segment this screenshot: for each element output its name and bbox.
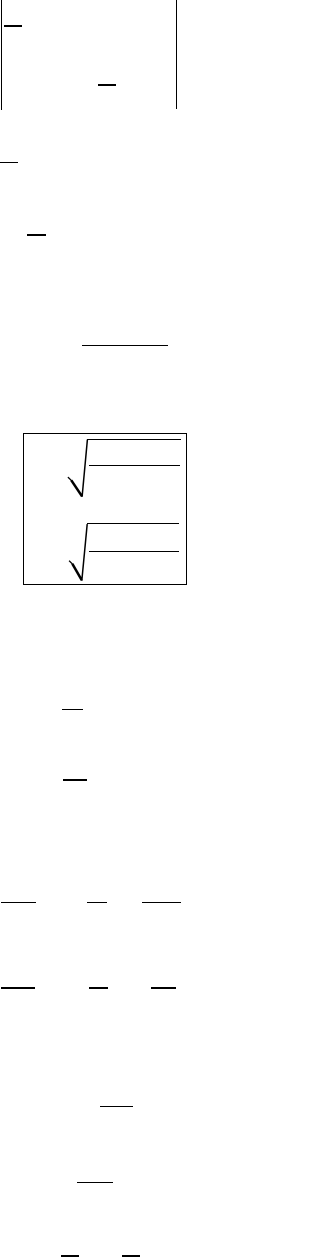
framed box	[23, 433, 187, 585]
fraction bar y1106	[100, 1106, 133, 1107]
sqrt overbar 1	[87, 439, 181, 440]
inner fraction bar 2	[89, 551, 180, 552]
bottom fraction bar right	[122, 1255, 141, 1257]
long fraction bar y345	[82, 345, 168, 346]
fraction bar y1182	[77, 1182, 113, 1183]
fraction bar at left margin y162	[0, 162, 18, 163]
minus rule center	[98, 84, 116, 86]
sqrt overbar 2	[87, 523, 179, 524]
radical sign 2	[69, 561, 73, 565]
fraction bar y710	[62, 709, 83, 710]
bottom fraction bar left	[61, 1255, 79, 1257]
row B bar 2	[89, 987, 109, 988]
fraction bar top-left	[4, 25, 22, 26]
radical sign 1	[0, 0, 188, 1257]
right vertical bracket rule	[176, 0, 177, 109]
left vertical bracket rule	[1, 0, 2, 109]
row B bar 1	[1, 987, 36, 988]
row B bar 3	[151, 987, 176, 988]
inner fraction bar 1	[89, 465, 181, 466]
row A bar 3	[142, 902, 181, 903]
fraction bar y780	[63, 779, 87, 780]
fraction bar y235	[27, 234, 46, 235]
row A bar 2	[87, 902, 107, 903]
row A bar 1	[1, 902, 36, 903]
